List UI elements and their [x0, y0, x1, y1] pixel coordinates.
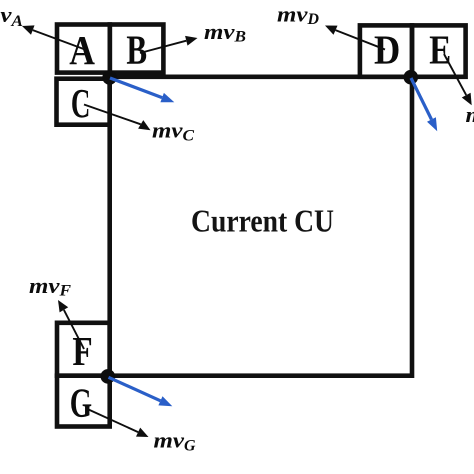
- node dot bottom-left corner: [101, 369, 116, 384]
- block Current CU (large square): [110, 77, 412, 376]
- node dot top-left corner: [102, 70, 117, 85]
- svg-text:E: E: [429, 26, 451, 72]
- block E: [412, 25, 466, 76]
- node dot top-right corner: [404, 70, 419, 85]
- block D: [360, 25, 412, 76]
- svg-text:A: A: [69, 27, 95, 73]
- svg-text:B: B: [126, 27, 147, 73]
- svg-text:F: F: [72, 328, 92, 374]
- leader arrow to label mvG: [89, 410, 149, 438]
- block A: [57, 25, 110, 73]
- blue motion vector arrow from top-left node: [110, 78, 174, 102]
- blue motion vector arrow from top-right node: [411, 78, 437, 131]
- leader arrow to label mvE: [444, 54, 472, 105]
- leader arrow to label mvA: [22, 25, 85, 49]
- svg-text:mvE: mvE: [466, 102, 474, 129]
- blue motion vector arrow from bottom-left node: [109, 377, 173, 406]
- block C: [57, 79, 110, 125]
- block G: [57, 376, 110, 427]
- block F: [57, 323, 110, 376]
- svg-text:Current CU: Current CU: [191, 202, 334, 238]
- block B: [110, 25, 164, 73]
- svg-text:D: D: [374, 27, 400, 73]
- leader arrow to label mvC: [84, 105, 151, 131]
- leader arrow to label mvF: [58, 300, 84, 349]
- svg-text:G: G: [70, 380, 92, 426]
- leader arrow to label mvB: [140, 36, 198, 53]
- leader arrow to label mvD: [325, 26, 385, 50]
- svg-text:C: C: [71, 80, 91, 126]
